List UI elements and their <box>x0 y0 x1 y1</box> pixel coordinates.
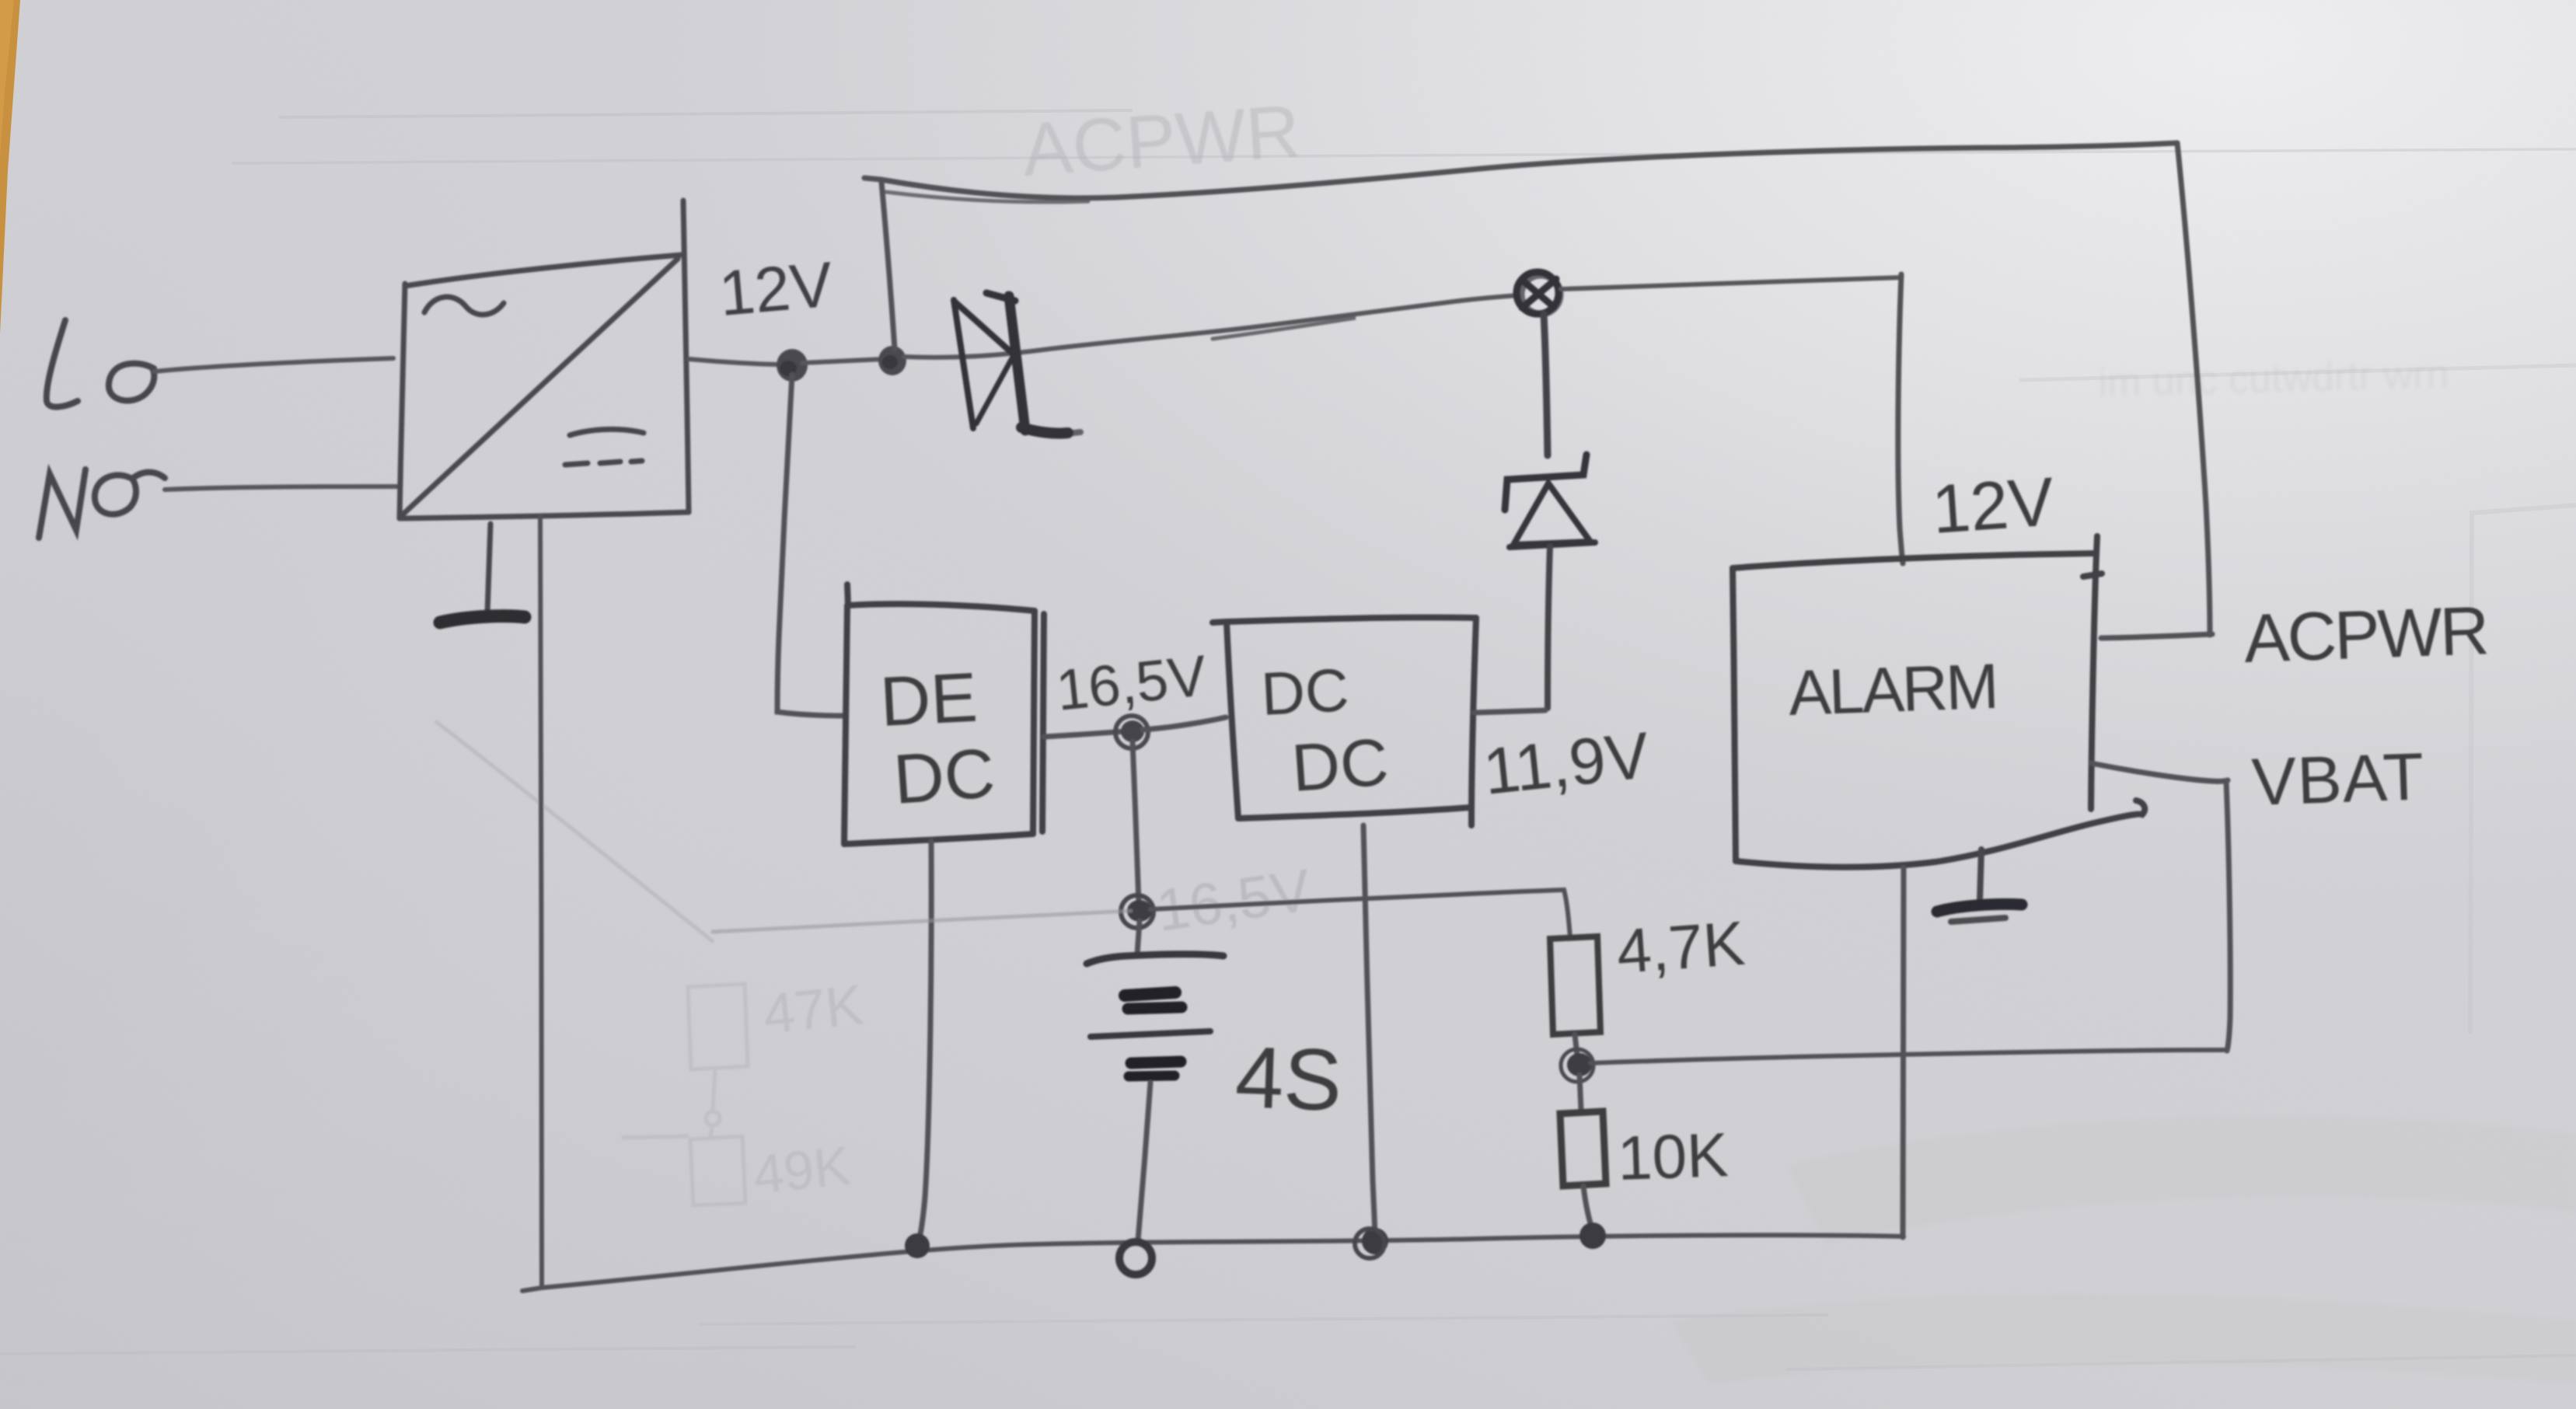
svg-text:10K: 10K <box>1616 1120 1729 1193</box>
wire battery sense to 4,7K (long horizontal) <box>1150 890 1570 937</box>
wire riser down to ALARM top <box>1898 274 1903 563</box>
DC symbol <box>565 429 644 465</box>
svg-text:DC: DC <box>1259 655 1350 728</box>
svg-text:DC: DC <box>891 734 997 819</box>
wire R2 bottom to bus <box>1583 1186 1592 1228</box>
node junction 16,5V <box>1121 720 1144 742</box>
ghost rectangle showing through paper right side <box>2470 505 2576 1034</box>
node circled junction (crossed circle) <box>1517 272 1560 314</box>
wire top rail AC PWR <box>864 143 2177 198</box>
wire U2 ground down to bus <box>1363 825 1375 1240</box>
svg-text:DC: DC <box>1290 725 1391 806</box>
node junction R1/R2 <box>1567 1053 1592 1076</box>
node bus junction U1 <box>905 1233 930 1258</box>
wire U1 ground down to bus <box>918 841 931 1244</box>
svg-text:12V: 12V <box>717 249 836 330</box>
node bus junction U2 <box>1362 1228 1388 1254</box>
wire N to converter <box>165 487 397 490</box>
wire junction B riser up <box>881 182 895 349</box>
diode D1 (bold) <box>954 293 1080 434</box>
ground (ALARM) <box>1980 849 1981 901</box>
wire node circle to ALARM 12V riser <box>1561 277 1901 289</box>
battery BT1 4S <box>1137 921 1140 954</box>
svg-text:49K: 49K <box>750 1135 853 1205</box>
wire ACPWR pin <box>2101 634 2212 638</box>
svg-text:12V: 12V <box>1929 462 2056 548</box>
ground (mains side) <box>487 524 490 613</box>
wire converter bottom to ground bus (tall left vertical) <box>540 516 542 1286</box>
svg-text:4S: 4S <box>1234 1028 1343 1129</box>
terminal L <box>47 320 154 407</box>
ghost band erased handwriting right side <box>2098 351 2449 406</box>
svg-text:DE: DE <box>878 659 979 741</box>
wire top rail riser down to ACPWR pin <box>2177 143 2210 635</box>
wrinkle shading bottom right <box>1671 1117 2576 1383</box>
wire faint stub toward erased resistor <box>713 911 1131 932</box>
zener diode Z1 <box>1505 455 1595 547</box>
AC/DC converter box <box>400 201 689 518</box>
wire top rail echo (drawn twice) <box>886 192 1088 202</box>
wire node R1/R2 to VBAT riser <box>1590 1050 2225 1063</box>
wire VBAT riser down <box>2226 782 2230 1051</box>
wire (double stroke echo) <box>1213 318 1356 339</box>
wire converter output <box>689 359 782 364</box>
node junction dot A <box>777 349 808 382</box>
node bus junction R2 <box>1579 1222 1606 1249</box>
wire <box>802 359 885 363</box>
svg-text:im unc cutwdrtr wrn: im unc cutwdrtr wrn <box>2098 351 2449 406</box>
resistor R2 10K <box>1579 1075 1581 1110</box>
ALARM box U3 <box>1733 536 2145 867</box>
erased ghost diagonal stroke <box>435 721 714 942</box>
DC-DC converter U2 (DC/DC box) <box>1213 617 1476 825</box>
wire 12V rail through diode to node circle <box>904 295 1518 357</box>
svg-text:47K: 47K <box>760 974 866 1046</box>
erased ghost resistor 47K <box>622 984 748 1205</box>
AC symbol ~ <box>424 297 504 315</box>
wire node to U2 input <box>1143 717 1226 730</box>
wire VBAT pin <box>2091 763 2228 781</box>
node junction battery top <box>1127 900 1152 922</box>
svg-text:4,7K: 4,7K <box>1614 909 1747 986</box>
node junction dot B <box>878 346 906 375</box>
resistor R1 4,7K <box>1550 936 1600 1034</box>
wire ALARM ground pin down to bus <box>1903 867 1904 1237</box>
wire R1 bottom to node <box>1575 1034 1577 1055</box>
wire node 16,5V down to battery <box>1133 741 1139 904</box>
orange table edge top-left <box>0 0 20 334</box>
wire battery bottom to bus <box>1138 1083 1150 1240</box>
svg-text:ACPWR: ACPWR <box>2243 591 2488 677</box>
terminal N <box>39 469 165 538</box>
wire U1 output to node 16,5V <box>1044 731 1126 737</box>
wire L to converter <box>154 358 393 371</box>
wire U2 output to zener bottom node <box>1474 710 1545 713</box>
wire node circle down to zener <box>1544 314 1548 455</box>
node loop junction battery bottom <box>1119 1242 1152 1275</box>
svg-text:ALARM: ALARM <box>1787 651 1998 729</box>
ground bus (bottom) <box>522 1235 1904 1291</box>
DC-DC converter U1 (DE/DC box) <box>844 584 1044 844</box>
wire zener to 11,9V node <box>1548 546 1550 708</box>
svg-text:VBAT: VBAT <box>2250 739 2425 820</box>
wire junction A down to DC-DC 1 input <box>777 375 846 716</box>
